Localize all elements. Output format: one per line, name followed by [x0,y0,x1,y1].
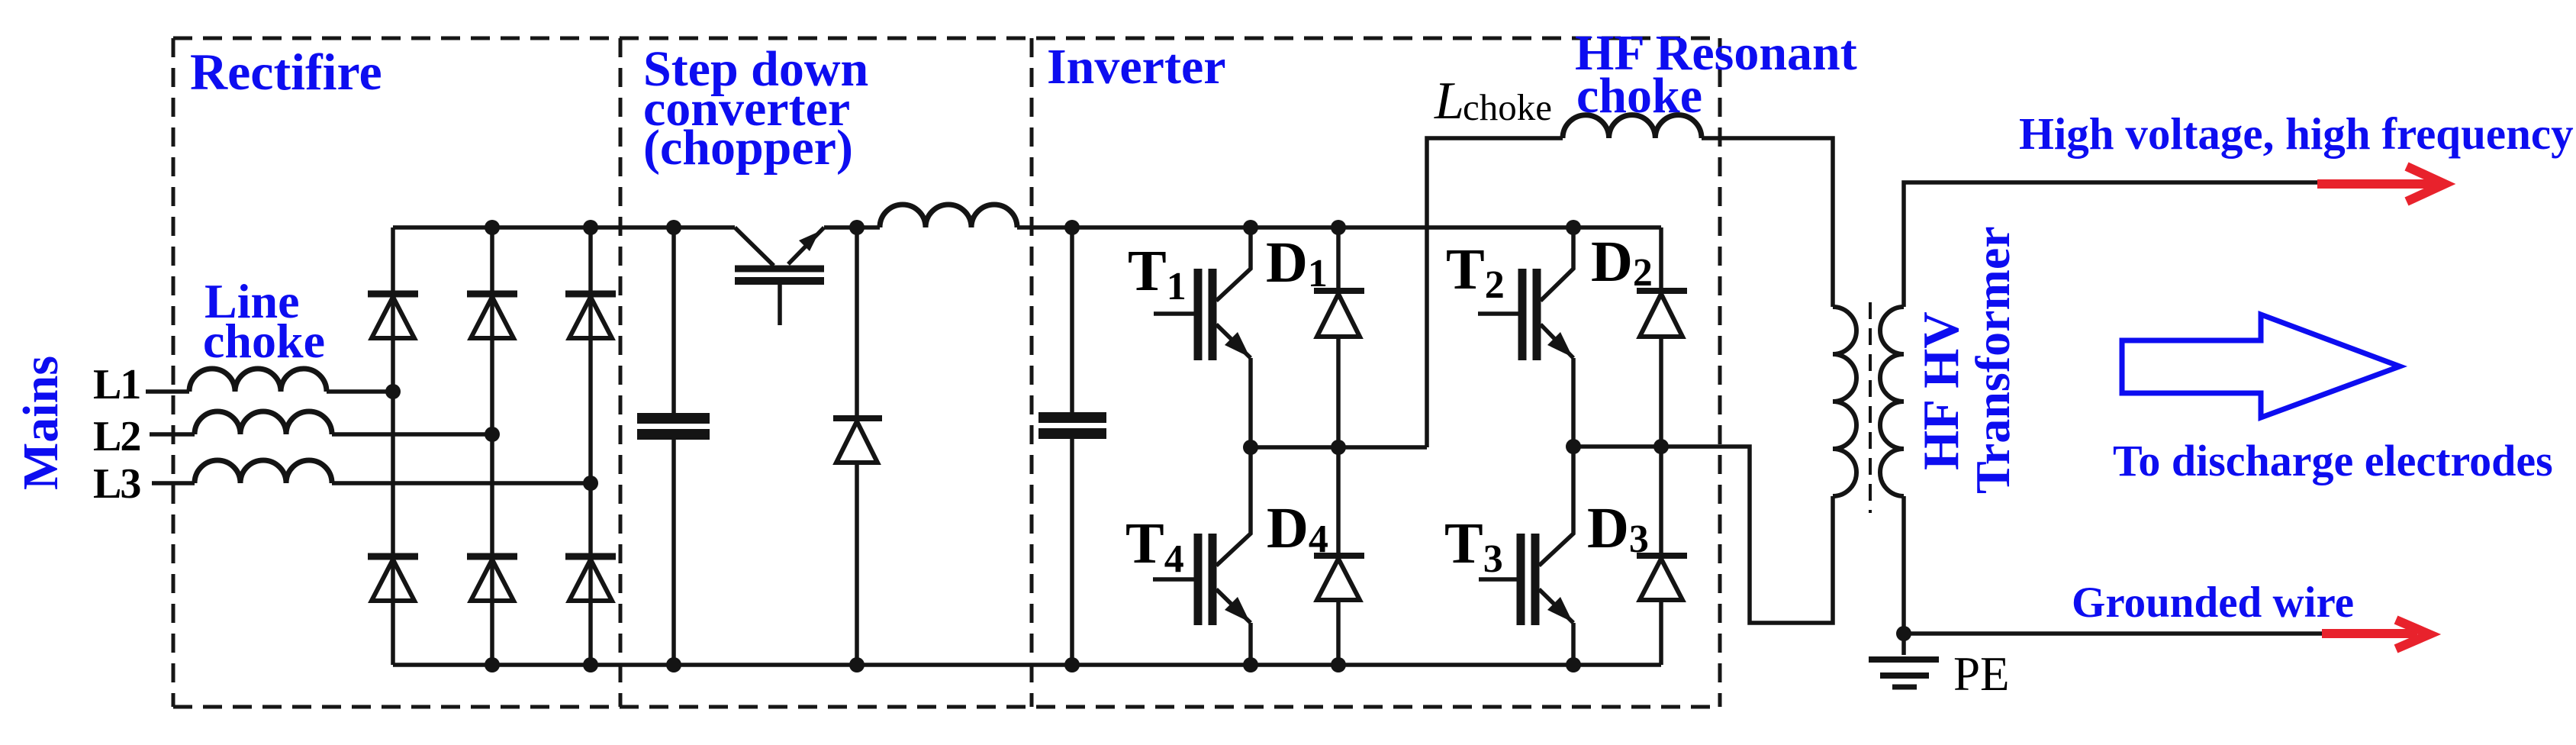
node D2 mid [1653,439,1669,454]
T4 emitter arrowhead [1225,597,1250,622]
svg-text:D2: D2 [1591,230,1653,295]
inverter mid bus left wire [1251,445,1427,450]
HF resonant choke Lchoke [1563,115,1702,138]
red arrow grounded wire [2322,620,2429,649]
svg-text:Transformer: Transformer [1966,226,2020,494]
mains wire L1 [146,369,393,392]
node chopper diode bottom [849,657,865,672]
diode D2 [1637,227,1687,447]
rectifier diode upper 2 [467,294,517,338]
svg-text:choke: choke [203,314,325,368]
chopper IGBT emitter arrowhead [799,231,819,251]
node inverter cap bottom [1064,657,1080,672]
transistor T1 (IGBT) [1154,227,1251,447]
T2 emitter arrowhead [1547,332,1573,357]
ground symbol PE [1869,660,1939,687]
rectifier leg 3 wire [588,227,593,665]
inverter mid bus right wire [1573,447,1833,623]
svg-text:T4: T4 [1125,511,1184,581]
line choke coil L3 [195,460,332,483]
T3 emitter arrowhead [1547,597,1573,622]
node T1 top [1243,220,1258,235]
node T1 mid [1243,440,1258,455]
chopper DC-link capacitor C1 [637,227,710,665]
svg-text:T2: T2 [1446,237,1505,307]
svg-text:(chopper): (chopper) [643,120,853,176]
transistor T3 (IGBT) [1479,447,1573,665]
svg-text:L3: L3 [93,460,140,508]
transformer secondary winding [1880,307,1904,496]
transformer primary winding [1833,307,1856,496]
svg-text:D1: D1 [1266,231,1328,295]
node D4 bottom [1331,657,1346,672]
choke to transformer wire [1702,138,1833,307]
node D1 top [1331,220,1346,235]
node L3 junction [583,476,598,491]
rectifier leg 2 wire [490,227,494,665]
node T3 bottom [1566,657,1581,672]
node inverter cap top [1064,220,1080,235]
T1 emitter arrowhead [1225,332,1250,357]
node top bus leg2 [485,220,500,235]
node D1 mid [1331,440,1346,455]
rectifier diode upper 1 [368,294,418,338]
transistor T4 (IGBT) [1153,447,1251,665]
node L2 junction [485,427,500,442]
diode D1 [1314,227,1364,447]
line choke coil L1 [189,369,327,392]
diode D4 [1314,447,1364,665]
svg-text:T1: T1 [1128,239,1187,308]
svg-text:PE: PE [1953,647,2010,701]
rectifier diode lower 2 [467,556,517,601]
svg-text:L: L [1434,72,1464,131]
svg-text:T3: T3 [1444,511,1503,581]
svg-text:To discharge electrodes: To discharge electrodes [2113,436,2553,485]
rectifier diode upper 3 [565,294,616,338]
diode D3 [1637,447,1687,665]
node chopper switch output [849,220,865,235]
node L1 junction [385,384,401,399]
node cap bottom [666,657,681,672]
node bottom bus leg3 [583,657,598,672]
Rectifier block dashed boundary [173,38,1720,707]
chopper filter inductor [880,205,1017,227]
svg-text:Inverter: Inverter [1047,39,1226,95]
red arrow high voltage output [2317,166,2445,202]
rectifier diode lower 3 [565,556,616,601]
DC bottom bus wire [393,663,1661,667]
node bottom bus leg2 [485,657,500,672]
secondary bottom wire to ground [1901,496,1906,655]
node top bus leg3 [583,220,598,235]
resonant choke riser wire [1427,138,1563,447]
svg-text:L2: L2 [93,413,140,460]
svg-text:D3: D3 [1587,496,1649,561]
node T4 bottom [1243,657,1258,672]
line choke coil L2 [195,411,332,434]
node secondary ground junction [1896,626,1911,641]
svg-text:HF HV: HF HV [1913,311,1969,470]
rectifier leg 1 wire [391,227,395,665]
svg-text:Rectifire: Rectifire [190,43,382,101]
mains wire L3 [152,460,591,483]
node T2 top [1566,220,1581,235]
DC top bus wire [393,225,1661,230]
secondary top wire to HV output [1904,182,2317,307]
transformer core (dashed) [1869,302,1872,513]
svg-text:Mains: Mains [13,356,69,490]
inverter DC-link capacitor C2 [1038,227,1106,665]
transistor T2 (IGBT) [1478,227,1573,447]
node cap top [666,220,681,235]
svg-text:L1: L1 [93,361,140,408]
rectifier diode lower 1 [368,556,418,601]
mains wire L2 [150,411,492,434]
svg-text:Grounded wire: Grounded wire [2072,579,2354,627]
big blue arrow to discharge electrodes [2122,314,2400,418]
svg-text:choke: choke [1463,86,1552,128]
chopper freewheel diode [833,227,882,665]
svg-text:D4: D4 [1267,496,1328,561]
svg-text:High voltage, high frequency: High voltage, high frequency [2019,108,2574,159]
node T2 mid [1566,439,1581,454]
chopper IGBT switch [735,227,824,325]
grounded wire [1904,631,2322,636]
